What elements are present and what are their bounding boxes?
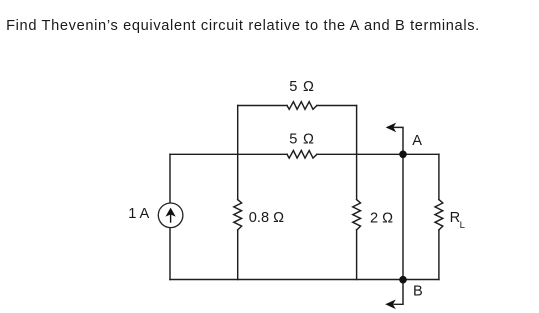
current source I1 circle bbox=[158, 203, 183, 228]
wire: A-B terminal vertical line bbox=[402, 154, 404, 279]
wire: terminal B stub (down and left) bbox=[394, 280, 403, 305]
svg-text:A: A bbox=[412, 133, 422, 149]
svg-text:0.8 Ω: 0.8 Ω bbox=[249, 210, 284, 226]
resistor R4 2 ohm bbox=[353, 200, 361, 230]
wire: top horizontal left segment bbox=[238, 105, 287, 107]
current source I1 arrowhead bbox=[166, 208, 176, 217]
terminal A arrowhead bbox=[386, 123, 397, 133]
wire: 0.8 ohm branch lower segment bbox=[237, 230, 239, 280]
wire: bottom horizontal to node B bbox=[170, 279, 403, 281]
wire: RL branch upper segment bbox=[438, 154, 440, 199]
wire: node A to RL branch top bbox=[403, 153, 439, 155]
svg-text:L: L bbox=[460, 220, 465, 231]
wire: 2 ohm branch lower segment bbox=[356, 230, 358, 280]
node A junction dot bbox=[399, 151, 407, 159]
wire: left vertical branch bbox=[169, 154, 171, 279]
wire: node B to RL branch bottom bbox=[403, 279, 439, 281]
svg-text:1 A: 1 A bbox=[128, 206, 149, 222]
svg-text:R: R bbox=[450, 210, 461, 226]
wire: terminal A stub (up and left) bbox=[394, 127, 403, 154]
svg-text:Find Thevenin’s equivalent cir: Find Thevenin’s equivalent circuit relat… bbox=[6, 18, 480, 34]
svg-text:2 Ω: 2 Ω bbox=[370, 211, 393, 227]
wire: 2 ohm branch upper segment bbox=[356, 154, 358, 199]
wire: 0.8 ohm branch upper segment bbox=[237, 154, 239, 199]
svg-text:B: B bbox=[413, 284, 423, 300]
svg-text:5 Ω: 5 Ω bbox=[289, 79, 314, 95]
wire: top loop right vertical bbox=[356, 106, 358, 155]
resistor R2 5 ohm (middle) bbox=[287, 151, 317, 159]
resistor R3 0.8 ohm bbox=[234, 200, 242, 230]
wire: middle horizontal left segment bbox=[170, 153, 287, 155]
wire: top loop left vertical bbox=[237, 106, 239, 155]
resistor RL bbox=[435, 200, 443, 230]
wire: RL branch lower segment bbox=[438, 230, 440, 280]
svg-text:5 Ω: 5 Ω bbox=[289, 131, 314, 147]
terminal B arrowhead bbox=[385, 300, 396, 310]
wire: middle horizontal right segment to node A bbox=[317, 153, 403, 155]
node B junction dot bbox=[399, 276, 407, 284]
wire: top horizontal right segment bbox=[317, 105, 357, 107]
resistor R1 5 ohm (top) bbox=[287, 102, 317, 110]
current source I1 arrow shaft bbox=[170, 214, 172, 223]
